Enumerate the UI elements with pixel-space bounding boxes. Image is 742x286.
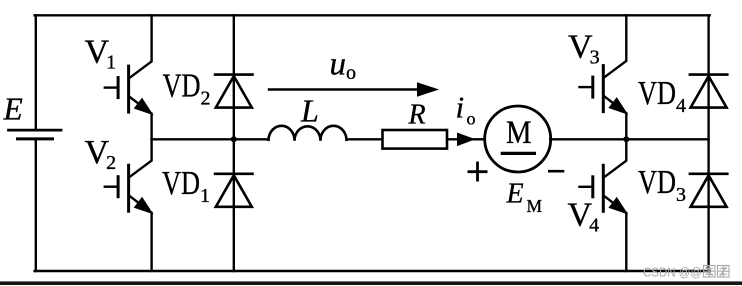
resistor R	[383, 130, 448, 149]
battery E plate short	[18, 137, 53, 140]
arrow: current io into motor	[458, 133, 475, 145]
label - (motor polarity)	[548, 170, 564, 173]
wire: left rail lower	[35, 139, 37, 271]
wire: left rail upper	[35, 15, 37, 130]
diode VD2	[214, 75, 254, 108]
svg-text:CSDN @@: CSDN @@	[643, 265, 702, 280]
battery E plate long	[9, 129, 62, 132]
junction: VD2/VD1 midpoint node	[231, 136, 237, 142]
wire: V2 emitter to bottom bus	[150, 213, 152, 271]
wire: VD2/VD1 leg	[233, 15, 235, 271]
svg-text:E: E	[3, 92, 23, 127]
diode VD1	[214, 174, 254, 207]
svg-text:i: i	[456, 90, 465, 125]
svg-text:E: E	[506, 179, 524, 210]
watermark CJK glyph 2	[718, 266, 730, 278]
transistor V1	[104, 61, 153, 114]
wire: V2 collector	[150, 139, 152, 160]
svg-text:u: u	[330, 46, 347, 82]
watermark CJK glyph 1	[704, 266, 716, 278]
wire: V3 emitter to mid node	[625, 113, 627, 139]
svg-text:R: R	[408, 100, 426, 131]
bottom separator bar	[0, 281, 742, 285]
transistor V4	[578, 160, 627, 213]
motor M circle	[485, 106, 551, 172]
wire: bottom bus	[35, 270, 710, 272]
diode VD3	[689, 174, 729, 207]
motor underline	[501, 152, 536, 155]
wire: V3 collector	[625, 15, 627, 60]
wire: V1 emitter to mid node	[150, 114, 152, 139]
wire: mid bus left (node A to inductor)	[152, 138, 269, 140]
svg-text:L: L	[300, 92, 319, 128]
diode VD4	[689, 75, 729, 108]
svg-text:M: M	[527, 196, 543, 216]
wire: V4 collector	[625, 139, 627, 160]
svg-text:o: o	[346, 62, 356, 84]
arrow: output voltage uo	[269, 88, 420, 90]
wire: top bus	[35, 14, 710, 16]
svg-text:o: o	[467, 109, 476, 129]
wire: right rail VD4/VD3 leg	[707, 15, 709, 271]
inductor L	[269, 126, 347, 141]
transistor V3	[578, 61, 627, 114]
wire: inductor to resistor	[347, 138, 384, 140]
junction: V3/V4 midpoint node	[623, 136, 629, 142]
transistor V2	[104, 160, 153, 213]
wire: resistor to arrow	[447, 138, 459, 140]
wire: arrow to motor	[473, 138, 486, 140]
wire: V1 collector	[150, 15, 152, 61]
wire: V4 emitter to bottom bus	[625, 213, 627, 271]
svg-text:M: M	[506, 115, 532, 151]
label + (motor polarity)	[468, 162, 488, 182]
wire: motor to right leg	[550, 138, 708, 140]
